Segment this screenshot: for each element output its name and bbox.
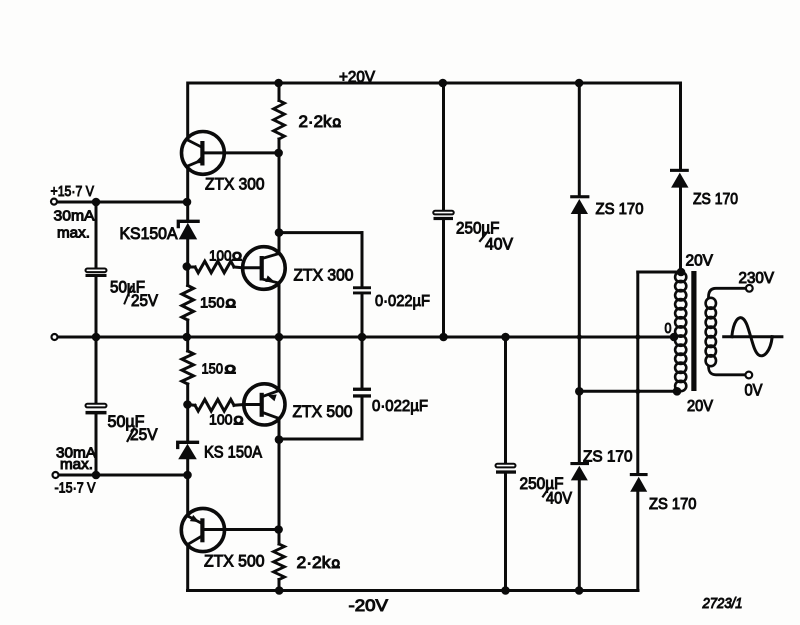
svg-text:ZTX 500: ZTX 500 [293,402,353,421]
svg-text:0V: 0V [745,382,763,400]
svg-text:40V: 40V [485,236,513,254]
svg-text:2723/1: 2723/1 [702,596,743,612]
svg-text:ZS 170: ZS 170 [693,191,738,208]
svg-text:ZTX 300: ZTX 300 [205,175,265,194]
svg-text:ZS 170: ZS 170 [596,201,644,218]
svg-text:Ω: Ω [225,365,237,377]
svg-text:ZTX 500: ZTX 500 [204,552,265,571]
svg-text:20V: 20V [687,398,714,415]
svg-text:150: 150 [200,294,225,311]
svg-text:Ω: Ω [232,252,242,264]
svg-text:KS150A: KS150A [120,224,179,243]
svg-text:Ω: Ω [332,559,341,571]
svg-text:30mA: 30mA [54,209,95,225]
svg-text:Ω: Ω [333,118,342,130]
svg-text:-20V: -20V [349,597,389,615]
svg-text:0: 0 [665,321,672,337]
svg-text:+15·7 V: +15·7 V [51,183,95,200]
svg-text:2·2k: 2·2k [297,554,332,572]
svg-text:0·022µF: 0·022µF [372,398,428,415]
svg-text:100: 100 [209,248,232,265]
svg-text:100: 100 [209,412,233,429]
svg-text:max.: max. [57,226,90,242]
svg-text:150: 150 [202,361,224,378]
svg-text:KS 150A: KS 150A [204,443,263,462]
svg-text:40V: 40V [546,490,572,508]
svg-text:-15·7 V: -15·7 V [55,480,96,497]
svg-text:ZS 170: ZS 170 [649,496,697,513]
svg-text:25V: 25V [131,292,158,310]
svg-text:Ω: Ω [234,416,244,428]
svg-text:max.: max. [60,457,93,473]
svg-text:20V: 20V [686,253,714,270]
svg-text:0·022µF: 0·022µF [375,293,430,310]
svg-text:ZTX 300: ZTX 300 [294,266,354,285]
svg-text:230V: 230V [739,270,775,287]
svg-text:2·2k: 2·2k [299,113,333,131]
svg-text:ZS 170: ZS 170 [583,449,633,466]
svg-text:Ω: Ω [226,298,237,310]
svg-text:+20V: +20V [339,69,375,86]
